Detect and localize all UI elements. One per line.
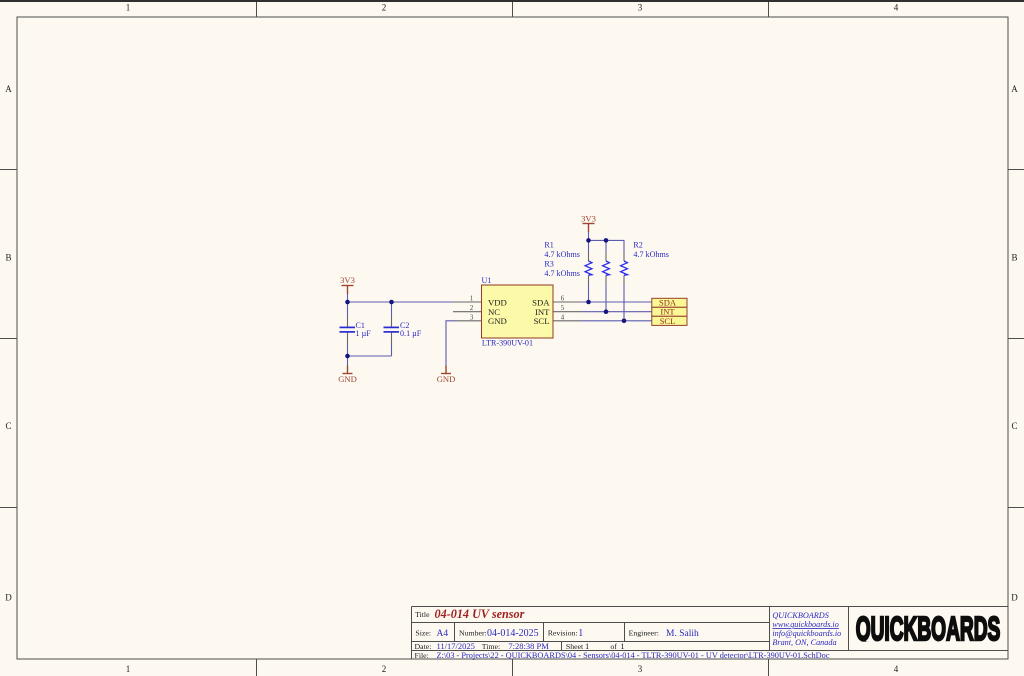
- svg-text:Size:: Size:: [415, 629, 431, 638]
- svg-text:GND: GND: [338, 374, 357, 384]
- svg-text:7:28:38 PM: 7:28:38 PM: [508, 641, 549, 651]
- svg-text:A: A: [1011, 84, 1018, 94]
- svg-text:D: D: [1011, 593, 1018, 603]
- svg-text:5: 5: [561, 305, 565, 312]
- svg-text:4: 4: [894, 664, 899, 674]
- svg-text:2: 2: [382, 3, 387, 13]
- svg-text:B: B: [1011, 253, 1017, 263]
- svg-text:Time:: Time:: [482, 642, 500, 651]
- svg-text:3: 3: [638, 3, 643, 13]
- svg-text:A: A: [5, 84, 12, 94]
- svg-text:B: B: [5, 253, 11, 263]
- svg-text:R2: R2: [633, 240, 642, 249]
- svg-text:3V3: 3V3: [340, 275, 355, 285]
- svg-text:Date:: Date:: [415, 642, 432, 651]
- svg-text:3: 3: [638, 664, 643, 674]
- svg-text:4.7 kOhms: 4.7 kOhms: [544, 269, 580, 278]
- svg-text:4: 4: [894, 3, 899, 13]
- svg-text:04-014 UV sensor: 04-014 UV sensor: [435, 607, 525, 621]
- svg-text:LTR-390UV-01: LTR-390UV-01: [482, 339, 533, 348]
- svg-text:4.7 kOhms: 4.7 kOhms: [633, 250, 669, 259]
- svg-text:File:: File:: [415, 651, 429, 660]
- svg-text:C: C: [1011, 421, 1017, 431]
- svg-text:3V3: 3V3: [581, 214, 596, 224]
- svg-text:1: 1: [578, 628, 583, 639]
- svg-text:1: 1: [126, 664, 131, 674]
- svg-text:D: D: [5, 593, 12, 603]
- svg-text:info@quickboards.io: info@quickboards.io: [772, 629, 841, 638]
- svg-text:www.quickboards.io: www.quickboards.io: [772, 620, 838, 629]
- svg-text:Title: Title: [415, 610, 430, 619]
- svg-text:Number:: Number:: [459, 629, 487, 638]
- svg-text:R1: R1: [544, 241, 553, 250]
- svg-text:GND: GND: [437, 374, 456, 384]
- svg-text:1: 1: [126, 3, 131, 13]
- svg-text:2: 2: [382, 664, 387, 674]
- svg-text:3: 3: [470, 314, 474, 321]
- svg-text:4.7 kOhms: 4.7 kOhms: [544, 250, 580, 259]
- svg-text:1: 1: [585, 641, 589, 651]
- svg-text:Z:\03 - Projects\22 - QUICKBOA: Z:\03 - Projects\22 - QUICKBOARDS\04 - S…: [437, 651, 830, 660]
- svg-text:6: 6: [561, 296, 565, 303]
- svg-text:Sheet: Sheet: [566, 642, 584, 651]
- svg-text:U1: U1: [482, 276, 492, 285]
- svg-text:SCL: SCL: [534, 316, 550, 326]
- svg-text:SCL: SCL: [660, 316, 676, 326]
- svg-text:Engineer:: Engineer:: [629, 629, 659, 638]
- svg-text:1: 1: [470, 296, 473, 303]
- svg-text:04-014-2025: 04-014-2025: [487, 628, 539, 639]
- svg-text:Brant, ON, Canada: Brant, ON, Canada: [772, 638, 836, 647]
- svg-text:1 µF: 1 µF: [356, 329, 372, 338]
- svg-text:1: 1: [620, 641, 624, 651]
- svg-text:of: of: [610, 642, 617, 651]
- svg-text:M. Salih: M. Salih: [666, 629, 699, 639]
- svg-text:2: 2: [470, 305, 474, 312]
- svg-text:0.1 µF: 0.1 µF: [400, 329, 422, 338]
- svg-text:11/17/2025: 11/17/2025: [437, 641, 475, 651]
- svg-text:QUICKBOARDS: QUICKBOARDS: [772, 611, 828, 620]
- svg-text:A4: A4: [437, 629, 449, 639]
- svg-text:R3: R3: [544, 260, 553, 269]
- svg-text:C: C: [5, 421, 11, 431]
- svg-text:4: 4: [561, 314, 565, 321]
- svg-text:Revision:: Revision:: [548, 629, 578, 638]
- svg-text:GND: GND: [488, 316, 507, 326]
